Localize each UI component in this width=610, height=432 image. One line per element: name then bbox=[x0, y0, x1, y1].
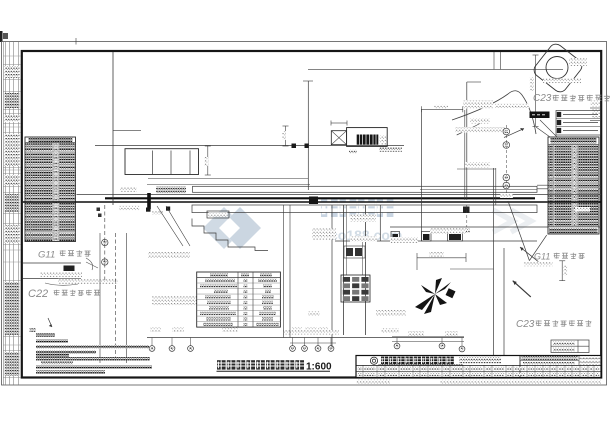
stepped boundary bbox=[192, 219, 268, 251]
left revision strip verticals bbox=[2, 42, 4, 386]
strip below road bbox=[192, 205, 537, 213]
leader arcs near C22 bbox=[86, 258, 93, 270]
right edge ticks bbox=[590, 107, 601, 109]
svg-text:G11: G11 bbox=[38, 250, 55, 261]
left strip extra dividers bbox=[3, 55, 20, 57]
platform strip above road bbox=[193, 186, 538, 192]
label 18.7B bbox=[575, 207, 590, 212]
title block mid row line bbox=[356, 370, 601, 372]
rotated dim label bbox=[204, 157, 208, 166]
copyright line bbox=[440, 380, 601, 384]
corner horizontal y82 bbox=[467, 81, 481, 83]
platform rectangle bbox=[125, 149, 199, 175]
cert text after name bbox=[459, 357, 501, 364]
file name text bbox=[356, 380, 390, 385]
crane text 2 bbox=[152, 296, 197, 306]
logo bbox=[370, 357, 377, 364]
grid bubble column x506 bbox=[505, 125, 507, 198]
svg-text:C23: C23 bbox=[533, 93, 552, 104]
title block cell dividers bbox=[362, 365, 364, 377]
svg-text:G11: G11 bbox=[534, 252, 550, 262]
notes heading bbox=[30, 328, 36, 332]
dim labels bbox=[283, 330, 339, 334]
dim 14.00 bbox=[421, 108, 462, 110]
inner thick border bbox=[22, 51, 601, 378]
vertical x500 top bbox=[499, 52, 501, 69]
watermark faint chevron 2 bbox=[493, 210, 531, 232]
railway thick line lower bbox=[23, 201, 601, 203]
road width text bbox=[40, 273, 82, 277]
branch y130 bbox=[113, 129, 141, 131]
small text top right corner bbox=[569, 58, 587, 66]
yangguang road black label bbox=[530, 112, 550, 119]
watermark logo chevron co188 bbox=[203, 207, 261, 249]
small legend table bbox=[556, 111, 601, 136]
grid bubbles bottom bbox=[151, 338, 153, 346]
roundabout circle bbox=[546, 57, 568, 79]
line y178 bbox=[148, 178, 308, 180]
sidewalk text bbox=[58, 279, 118, 284]
left table rows bbox=[25, 142, 76, 144]
dim label 14.00 bbox=[434, 105, 448, 109]
corridor mid marks bbox=[344, 246, 365, 258]
outer thin border bbox=[2, 42, 607, 386]
dark dots on y145 bbox=[292, 144, 297, 149]
line y269 bbox=[450, 268, 494, 270]
road thin line bbox=[77, 193, 602, 195]
dashed vertical x104 bbox=[104, 205, 106, 280]
vertical dim x562 bbox=[561, 261, 563, 281]
arrow above notes bbox=[48, 318, 52, 327]
building hatched core bbox=[357, 135, 379, 145]
long line y241 bbox=[335, 240, 537, 242]
funnel V lines bbox=[508, 201, 529, 261]
tree symbol bbox=[415, 278, 456, 314]
watermark text tumuzaixian bbox=[321, 199, 338, 217]
label 071 bbox=[543, 79, 581, 84]
C23 label bottom right bbox=[513, 281, 531, 297]
vertical x464 bbox=[464, 110, 466, 200]
svg-text:C22: C22 bbox=[28, 288, 48, 300]
vertical line x113 bbox=[112, 52, 114, 205]
small building squares on y241 bbox=[391, 232, 400, 242]
left table header text bbox=[29, 137, 73, 142]
svg-text:1:600: 1:600 bbox=[306, 361, 332, 372]
station house block bbox=[341, 275, 370, 302]
G11 label right bbox=[520, 247, 540, 263]
rotated dim label bbox=[530, 77, 534, 91]
strip internal line bbox=[420, 188, 537, 190]
label near squares bbox=[461, 229, 470, 233]
corridor leader texts bbox=[350, 215, 376, 223]
roundabout rounded diamond bbox=[531, 41, 584, 94]
economic index table bbox=[197, 272, 281, 327]
long horizontal y145 bbox=[95, 144, 404, 146]
right data table bbox=[548, 137, 599, 234]
vertical x504 bbox=[503, 248, 505, 356]
corridor verticals bbox=[331, 205, 333, 348]
guihua road black label bbox=[64, 266, 75, 272]
line y263 bbox=[23, 262, 81, 264]
institute name bbox=[381, 357, 388, 365]
vertical x283 bbox=[283, 205, 285, 338]
thin line right 188 bbox=[537, 188, 601, 190]
tick on outer border top bbox=[75, 38, 77, 45]
vertical x290 bbox=[289, 205, 291, 338]
title block outer bbox=[356, 356, 601, 378]
leader arrow to curve bbox=[504, 129, 524, 138]
crossing mark on road bbox=[309, 197, 318, 205]
grid bubbles x104 bbox=[102, 239, 108, 245]
vertical x495 bbox=[495, 168, 497, 205]
right table bottom row bbox=[549, 228, 598, 233]
drawing title bbox=[217, 360, 226, 369]
vertical x308 bbox=[307, 81, 309, 190]
curved road to roundabout bbox=[452, 91, 536, 134]
right section text row1 bbox=[522, 356, 578, 360]
vertical dim x535 bbox=[535, 55, 537, 126]
title block right divider bbox=[519, 356, 521, 378]
crane text 1 bbox=[148, 252, 190, 259]
station building outline bbox=[347, 128, 388, 147]
vertical x466 bbox=[466, 82, 468, 200]
chainage label P= bbox=[156, 186, 186, 193]
line y278 bbox=[23, 278, 81, 280]
line y184 bbox=[147, 184, 310, 186]
dim x285 bbox=[285, 126, 287, 146]
text right of corridor bbox=[430, 228, 466, 234]
dark blob below road right bbox=[463, 207, 470, 214]
left coordinates table bbox=[25, 137, 76, 242]
vertical x493 bbox=[493, 168, 495, 356]
dim text bbox=[349, 150, 357, 154]
svg-text:C23: C23 bbox=[516, 319, 535, 330]
verticals below C22 bbox=[99, 233, 101, 363]
long line y227 bbox=[390, 226, 601, 228]
dim 44.28 bbox=[417, 257, 466, 259]
building annex with X brace bbox=[331, 131, 346, 145]
railway line over right table bbox=[548, 201, 601, 203]
dim right of platform bbox=[207, 146, 209, 175]
long horizontal y69 bbox=[308, 68, 563, 70]
review table bbox=[551, 340, 589, 353]
right section text row2 bbox=[523, 361, 575, 365]
railway thick line upper bbox=[105, 197, 535, 199]
leader texts top right bbox=[463, 100, 493, 109]
label 15.7B bbox=[500, 194, 513, 198]
left table column lines bbox=[30, 143, 32, 242]
english line bbox=[378, 364, 463, 366]
leaders left of right table bbox=[540, 120, 557, 137]
dim above annex bbox=[331, 122, 347, 124]
text above y169 bbox=[465, 162, 490, 168]
vertical x421 bbox=[420, 109, 422, 241]
thin line right 185 bbox=[537, 184, 601, 186]
diagonal leaders to center table bbox=[157, 206, 183, 246]
main bottom dim line bbox=[147, 337, 464, 339]
line y169 bbox=[457, 168, 496, 170]
dashed vertical x466 low bbox=[466, 205, 468, 227]
vertical x494 top bbox=[493, 52, 495, 69]
scan edge artifact top-left bbox=[0, 31, 3, 42]
leader text under building bbox=[379, 148, 402, 152]
left strip text clusters bbox=[5, 66, 20, 78]
text under G11 right bbox=[524, 262, 553, 267]
right table header bbox=[551, 138, 597, 144]
tick top x308 bbox=[303, 80, 313, 82]
small box pavement bbox=[207, 211, 229, 218]
marks right of core bbox=[380, 135, 387, 145]
chainage tick bbox=[147, 193, 151, 209]
